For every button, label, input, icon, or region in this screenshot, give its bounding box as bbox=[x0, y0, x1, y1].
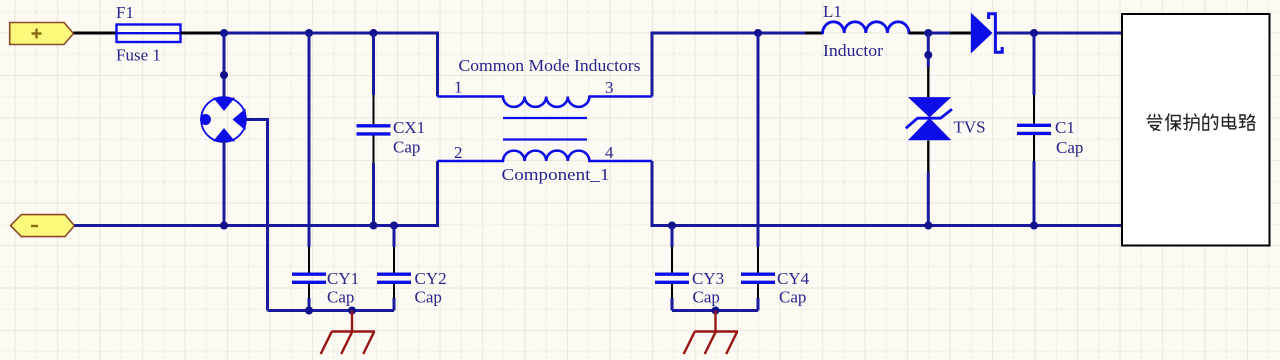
label protected circuit (Chinese glyphs drawn) bbox=[1147, 114, 1255, 131]
wire riser to pin 1 bbox=[436, 32, 439, 97]
char hu bbox=[1184, 114, 1199, 130]
svg-text:Cap: Cap bbox=[1056, 138, 1083, 157]
wire CY4 riser from top rail bbox=[757, 33, 760, 247]
TVS D2 bbox=[906, 97, 952, 140]
wire TVS top bbox=[927, 33, 930, 67]
pin CY3 top (black) bbox=[671, 247, 673, 273]
capacitor C1 bbox=[1017, 125, 1051, 133]
capacitor CY3 bbox=[655, 274, 689, 282]
wire subrail 1 bbox=[268, 309, 395, 312]
wire CY2 to subrail bbox=[393, 298, 396, 311]
svg-text:C1: C1 bbox=[1055, 118, 1075, 137]
wire CY4 to subrail bbox=[757, 298, 760, 311]
svg-text:Cap: Cap bbox=[393, 138, 420, 157]
wire port+ to fuse (black) bbox=[74, 32, 117, 35]
port P- bbox=[11, 215, 75, 237]
wire subrail 2 bbox=[672, 309, 758, 312]
pin CX1 top (black) bbox=[373, 95, 375, 124]
pin TVS top (black) bbox=[927, 67, 929, 97]
winding top bbox=[503, 97, 589, 107]
svg-text:CX1: CX1 bbox=[393, 118, 425, 137]
svg-text:3: 3 bbox=[605, 78, 614, 97]
wire TVS to bottom rail bbox=[927, 172, 930, 226]
wire C1 to bottom rail bbox=[1033, 161, 1036, 226]
svg-text:4: 4 bbox=[605, 143, 614, 162]
pin CX1 bottom (black) bbox=[373, 136, 375, 164]
svg-text:1: 1 bbox=[454, 78, 463, 97]
node A junction bbox=[220, 29, 228, 37]
svg-text:L1: L1 bbox=[823, 2, 842, 21]
pin diode left (black) bbox=[950, 32, 971, 35]
wire riser to pin 2 bbox=[436, 161, 439, 227]
wire varistor top bbox=[223, 33, 226, 98]
capacitor CY2 bbox=[377, 274, 411, 282]
wire CY3 to subrail bbox=[671, 298, 674, 311]
wire varistor bottom bbox=[223, 141, 226, 226]
wire CY3 from bottom rail bbox=[671, 226, 674, 248]
pin 4 bbox=[589, 160, 652, 163]
svg-text:CY4: CY4 bbox=[777, 269, 810, 288]
svg-text:Cap: Cap bbox=[415, 288, 442, 307]
pin L1 right (black) bbox=[909, 32, 924, 35]
svg-text:2: 2 bbox=[454, 143, 463, 162]
winding bottom bbox=[503, 151, 589, 161]
wire C1 from top rail bbox=[1033, 33, 1036, 95]
wire CY1 riser from top rail bbox=[308, 33, 311, 247]
pin 3 bbox=[589, 95, 652, 98]
capacitor CY4 bbox=[741, 274, 775, 282]
pin CY4 bottom (black) bbox=[757, 284, 759, 299]
junction CY4 top bbox=[754, 29, 762, 37]
protected circuit box bbox=[1122, 14, 1270, 246]
svg-text:Cap: Cap bbox=[693, 288, 720, 307]
svg-text:TVS: TVS bbox=[954, 118, 986, 137]
core lines bbox=[503, 118, 587, 140]
wire diode to C1 node bbox=[996, 32, 1122, 35]
wire pin4 riser to bottom rail bbox=[651, 161, 654, 227]
svg-text:Component_1: Component_1 bbox=[502, 165, 610, 184]
junction varistor bottom rail bbox=[220, 222, 228, 230]
pin CY1 bottom (black) bbox=[308, 284, 310, 299]
diode D1 bbox=[971, 13, 1002, 54]
char de bbox=[1203, 114, 1218, 130]
svg-text:Fuse 1: Fuse 1 bbox=[116, 46, 161, 65]
pin L1 left (black) bbox=[805, 32, 823, 35]
pin TVS bottom (black) bbox=[927, 141, 929, 173]
svg-text:CY3: CY3 bbox=[692, 269, 724, 288]
svg-text:Cap: Cap bbox=[327, 288, 354, 307]
wire top rail right segment bbox=[651, 32, 806, 35]
junction ground 2 bbox=[712, 307, 720, 315]
char dian bbox=[1223, 114, 1237, 129]
junction TVS bottom bbox=[924, 222, 932, 230]
pin 2 bbox=[438, 160, 504, 163]
varistor RV1 bbox=[200, 97, 246, 142]
wire varistor right arm bbox=[246, 120, 268, 311]
svg-text:CY1: CY1 bbox=[327, 269, 359, 288]
svg-text:Cap: Cap bbox=[779, 288, 806, 307]
junction CY2 top rail bbox=[390, 222, 398, 230]
junction C1 bottom bbox=[1030, 222, 1038, 230]
pin C1 top (black) bbox=[1033, 95, 1035, 124]
wire bottom rail left segment bbox=[74, 224, 437, 227]
junction ground 1 bbox=[348, 307, 356, 315]
wire L1 to diode node bbox=[924, 32, 950, 35]
wire CX1 to bottom rail bbox=[372, 163, 375, 226]
pin CY1 top (black) bbox=[308, 247, 310, 273]
svg-text:CY2: CY2 bbox=[415, 269, 447, 288]
fuse F1 bbox=[117, 25, 181, 43]
junction C1 top bbox=[1030, 29, 1038, 37]
svg-text:Inductor: Inductor bbox=[823, 41, 883, 60]
pin CY2 bottom (black) bbox=[393, 284, 395, 299]
node CX1 top junction bbox=[370, 29, 378, 37]
char bao bbox=[1166, 114, 1181, 131]
common mode choke T1 pin 1 bbox=[438, 95, 504, 98]
junction CY1 subrail bbox=[305, 307, 313, 315]
pin CY4 top (black) bbox=[757, 247, 759, 273]
wire CX1 from top rail bbox=[372, 33, 375, 95]
svg-text:F1: F1 bbox=[116, 3, 134, 22]
char shou bbox=[1147, 114, 1162, 130]
char lu bbox=[1240, 115, 1256, 131]
capacitor CX1 bbox=[357, 126, 391, 134]
junction CY3 top bbox=[668, 222, 676, 230]
wire top rail left segment bbox=[223, 32, 438, 35]
junction TVS top bbox=[924, 51, 932, 59]
wire CY1 to subrail bbox=[308, 298, 311, 311]
wire pin3 riser to top rail bbox=[651, 32, 654, 97]
ground GND1 bbox=[321, 311, 375, 355]
ground GND2 bbox=[684, 311, 738, 355]
pin C1 bottom (black) bbox=[1033, 135, 1035, 161]
junction varistor top bbox=[220, 71, 228, 79]
wire fuse to node A (black) bbox=[181, 32, 225, 35]
pin CY3 bottom (black) bbox=[671, 284, 673, 299]
inductor L1 bbox=[823, 22, 909, 33]
junction CX1 bottom rail bbox=[370, 222, 378, 230]
svg-text:Common Mode Inductors: Common Mode Inductors bbox=[459, 56, 641, 75]
port P+ bbox=[10, 23, 74, 45]
wire CY2 from bottom rail bbox=[393, 226, 396, 248]
wire bottom rail right segment bbox=[651, 224, 1123, 227]
node CY1 top junction bbox=[305, 29, 313, 37]
pin CY2 top (black) bbox=[393, 247, 395, 273]
junction L1 right bbox=[924, 29, 932, 37]
capacitor CY1 bbox=[292, 274, 326, 282]
